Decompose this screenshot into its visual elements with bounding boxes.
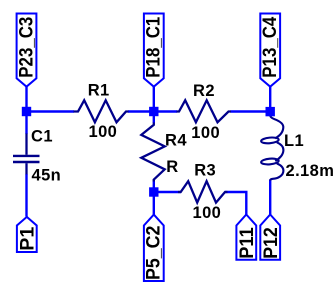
node A junction bbox=[22, 107, 31, 116]
resistor R1 bbox=[74, 100, 129, 122]
svg-text:R2: R2 bbox=[193, 82, 215, 100]
wire node A to C1 bbox=[25, 112, 27, 135]
wire R1 to node B bbox=[128, 110, 154, 112]
svg-text:2.18m: 2.18m bbox=[286, 162, 334, 180]
svg-text:45n: 45n bbox=[32, 166, 62, 184]
svg-text:C1: C1 bbox=[31, 127, 53, 145]
port P13_C4 bbox=[260, 14, 281, 87]
port P12 bbox=[260, 215, 282, 260]
wire P13_C4 to node C bbox=[269, 87, 271, 112]
svg-text:P13_C4: P13_C4 bbox=[260, 16, 281, 77]
wire node B to R2 bbox=[154, 110, 177, 112]
wire R3 to P11 bbox=[225, 192, 247, 215]
svg-text:R3: R3 bbox=[194, 162, 216, 180]
wire node B to R4 bbox=[153, 112, 155, 124]
wire P18_C1 to node B bbox=[153, 87, 155, 112]
node C junction bbox=[266, 107, 275, 116]
inductor L1 bbox=[261, 116, 284, 181]
resistor R2 bbox=[177, 100, 232, 122]
svg-text:P11: P11 bbox=[237, 227, 258, 259]
svg-text:R4: R4 bbox=[165, 132, 187, 150]
capacitor C1 bbox=[13, 134, 40, 175]
resistor R4 bbox=[141, 123, 164, 182]
wire node D to R3 bbox=[154, 191, 181, 193]
node D junction bbox=[149, 187, 158, 196]
svg-text:R: R bbox=[166, 158, 178, 176]
svg-text:P1: P1 bbox=[18, 226, 39, 250]
wire R2 to node C bbox=[231, 110, 271, 112]
svg-text:P23_C3: P23_C3 bbox=[16, 17, 37, 78]
svg-text:R1: R1 bbox=[88, 81, 110, 99]
wire node A to R1 bbox=[27, 110, 75, 112]
node B junction bbox=[149, 107, 158, 116]
resistor R3 bbox=[178, 181, 228, 202]
svg-text:100: 100 bbox=[89, 123, 118, 141]
svg-text:100: 100 bbox=[193, 204, 222, 222]
wire L1 to P12 bbox=[269, 180, 271, 215]
svg-text:P18_C1: P18_C1 bbox=[144, 16, 165, 77]
svg-text:P12: P12 bbox=[261, 227, 282, 259]
svg-text:P5_C2: P5_C2 bbox=[144, 226, 165, 280]
port P23_C3 bbox=[16, 14, 37, 87]
wire P23_C3 to node A bbox=[25, 87, 27, 112]
wire node D to P5_C2 bbox=[153, 192, 155, 215]
wire R4 to node D bbox=[153, 179, 155, 192]
port P18_C1 bbox=[144, 14, 165, 87]
svg-text:100: 100 bbox=[191, 124, 220, 142]
wire C1 to P1 bbox=[25, 174, 27, 217]
svg-text:L1: L1 bbox=[284, 132, 304, 150]
port P1 bbox=[17, 217, 39, 252]
port P5_C2 bbox=[144, 215, 165, 281]
port P11 bbox=[236, 215, 258, 260]
